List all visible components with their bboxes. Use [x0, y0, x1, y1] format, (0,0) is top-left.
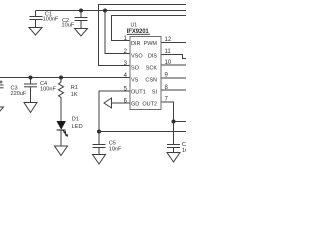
svg-text:VS: VS	[131, 78, 139, 84]
svg-text:PWM: PWM	[144, 41, 158, 47]
wire pin11 DIS with jog	[161, 55, 186, 59]
svg-text:OUT1: OUT1	[131, 90, 146, 96]
svg-text:DIR: DIR	[131, 41, 141, 47]
svg-text:SO: SO	[131, 65, 140, 71]
led D1	[57, 121, 69, 146]
svg-text:LED: LED	[72, 124, 83, 130]
ground for C4	[24, 103, 37, 113]
svg-text:10nF: 10nF	[109, 147, 122, 153]
svg-text:11: 11	[165, 49, 172, 55]
svg-text:220uF: 220uF	[11, 91, 27, 97]
ground for C3 clipped	[0, 107, 4, 115]
wire pin7 OUT2 down to C6	[161, 102, 174, 145]
ground for C6	[167, 153, 180, 163]
svg-text:10: 10	[165, 60, 172, 66]
svg-text:10uF: 10uF	[62, 23, 75, 29]
svg-text:D1: D1	[72, 117, 79, 123]
svg-text:VSO: VSO	[131, 53, 143, 59]
wire pin5 OUT1 down to C5	[99, 91, 130, 145]
wire VS supply rail	[0, 77, 130, 79]
wire OUT1 branch to right edge	[99, 131, 186, 133]
capacitor C3 polarized clipped at left edge	[0, 78, 4, 108]
junction dot VSO net	[103, 9, 107, 13]
resistor R1	[59, 78, 64, 122]
junction dot OUT2 C6	[172, 120, 176, 124]
wire OUT2 branch to right edge	[174, 121, 187, 123]
wire pin12 PWM	[161, 42, 186, 44]
svg-text:OUT2: OUT2	[142, 102, 157, 108]
capacitor C1	[30, 11, 43, 28]
wire pin8 SI	[161, 89, 186, 91]
svg-text:U1: U1	[131, 23, 138, 29]
junction dot C4	[29, 76, 33, 80]
wire pin10 SCK	[161, 64, 186, 66]
svg-text:SCK: SCK	[146, 65, 158, 71]
svg-text:SI: SI	[152, 90, 158, 96]
ground for C1	[29, 28, 42, 36]
wire net A top to SO pin 3	[99, 5, 187, 66]
svg-text:DIS: DIS	[148, 53, 158, 59]
svg-text:10nF: 10nF	[182, 148, 186, 154]
wire pin9 CSN	[161, 77, 186, 79]
junction dot C2	[79, 9, 83, 13]
capacitor C4	[24, 78, 37, 103]
ic U1 box	[130, 37, 161, 110]
ground for C5	[93, 155, 106, 165]
wire net C to DIR pin 1	[112, 16, 187, 41]
wire pin6 GD stub	[112, 102, 131, 104]
svg-text:GD: GD	[131, 102, 139, 108]
gd arrow pin 6	[104, 98, 112, 108]
wire VSO cap net horizontal	[36, 10, 187, 12]
capacitor C6	[167, 145, 180, 153]
svg-text:12: 12	[165, 37, 172, 43]
svg-text:100nF: 100nF	[40, 86, 56, 92]
svg-text:1K: 1K	[71, 92, 78, 98]
wire VSO branch down to pin 2	[105, 11, 130, 54]
capacitor C5	[93, 145, 106, 155]
junction dot R1	[59, 76, 63, 80]
svg-text:100nF: 100nF	[43, 17, 59, 23]
svg-text:R1: R1	[71, 85, 78, 91]
capacitor C2	[75, 11, 88, 29]
ground for C2	[75, 29, 88, 37]
junction dot OUT1 C5	[97, 130, 101, 134]
ground for D1	[55, 146, 68, 156]
svg-text:CSN: CSN	[145, 78, 157, 84]
